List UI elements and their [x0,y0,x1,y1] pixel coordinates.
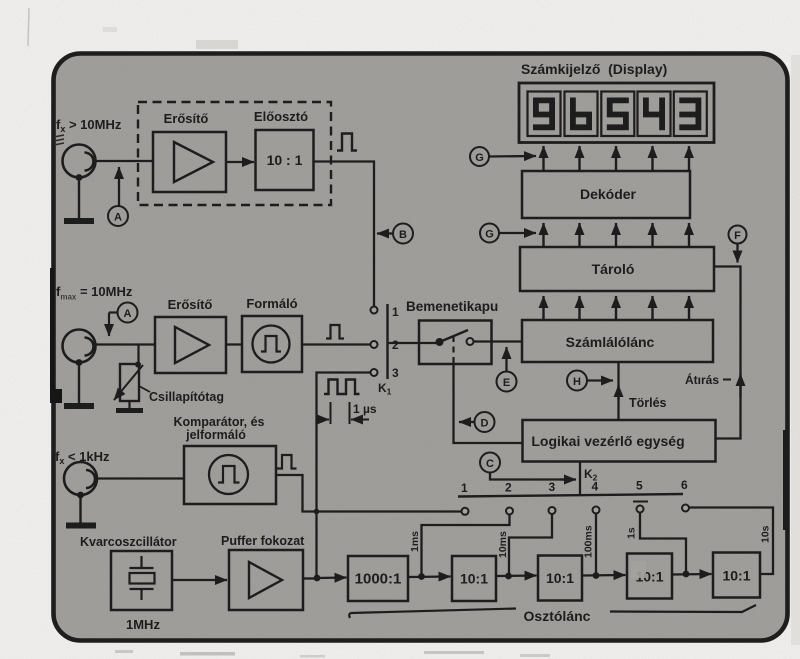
divider block 10:1 (d) [713,553,760,598]
svg-text:3: 3 [392,366,399,380]
svg-text:1ms: 1ms [409,531,421,552]
svg-text:2: 2 [505,481,512,495]
digit cell 2 (6 as b) [565,92,598,137]
svg-text:10 : 1: 10 : 1 [267,152,303,168]
wire last divider to contact 6 [690,508,774,575]
storage block Tároló [520,247,714,291]
wire contact3 to 10ms node [509,514,552,576]
digit cell 3 (5) [601,92,634,137]
svg-text:Számkijelző (Display): Számkijelző (Display) [521,61,667,77]
label Puffer fokozat [221,534,305,548]
svg-text:1 µs: 1 µs [353,402,377,416]
ground (J1) [64,178,94,221]
calibration double pulse symbol [324,380,360,395]
amplifier block (middle) [155,317,226,373]
arrows store to decoder [544,223,690,247]
svg-text:Csillapítótag: Csillapítótag [149,390,224,404]
pulse symbol (comparator output) [277,455,297,469]
arrows decoder to display [544,146,690,171]
wire prescaler to K1 pos1 [314,162,375,307]
K2 contact 2 [506,508,513,515]
wire contact5 to 1s node [640,513,686,575]
divider block 1000:1 [348,556,408,601]
svg-text:Számlálólánc: Számlálólánc [566,334,655,350]
label Csillapítótag [139,386,224,404]
svg-text:Kvarcoszcillátor: Kvarcoszcillátor [80,535,177,549]
svg-text:Osztólánc: Osztólánc [524,608,591,624]
label Számkijelző (Display) [521,61,667,77]
gate control wire down to logic unit [454,364,523,443]
label Bemenetikapu [406,299,498,314]
wire K1 to gate [388,342,438,344]
prescaler block 10:1 [256,130,314,190]
node after 1000:1 [408,573,451,580]
svg-text:10:1: 10:1 [460,571,488,587]
label Osztólánc [524,608,591,624]
ink blob on left border [50,268,62,403]
svg-text:A: A [114,212,122,224]
input gate block with switch [419,321,492,365]
arrows counter to store [544,296,690,320]
svg-text:Átırás: Átırás [685,372,719,387]
input connector J2 [63,330,96,366]
K2 contact 6 [682,505,689,512]
svg-text:jelformáló: jelformáló [185,428,246,442]
attenuator branch wire [135,345,141,368]
svg-text:1MHz: 1MHz [126,617,160,632]
svg-text:Komparátor, és: Komparátor, és [173,415,264,429]
svg-text:10:1: 10:1 [546,570,574,586]
label fx<1kHz [55,449,110,466]
node after 10:1 (a) [496,573,537,580]
node A (second) [109,303,138,337]
label Komparátor és jelformáló [173,415,264,442]
label Átírás [685,372,731,387]
svg-text:1000:1: 1000:1 [355,571,402,588]
svg-text:C: C [486,458,494,470]
node H arrow [567,371,613,391]
divider block 10:1 (a) [452,556,496,601]
svg-text:1: 1 [461,481,468,495]
svg-text:H: H [573,376,581,388]
svg-text:Erősítő: Erősítő [164,111,209,126]
svg-text:4: 4 [592,480,599,494]
node G arrow (lower) [480,224,536,243]
node between 10:1 (c) and (d) [672,571,712,578]
K2 bus bar [458,494,683,497]
dashed prescaler enclosure [138,102,331,205]
digit cell 4 (4) [638,92,671,137]
svg-text:Törlés: Törlés [629,396,667,410]
node B [377,224,413,244]
1µs dimension [317,402,377,424]
digit cell 1 (9) [528,92,561,137]
wire contact2 to 1ms node [422,515,510,577]
display bezel [519,83,714,143]
svg-text:1s: 1s [626,527,638,539]
label fmax=10MHz [56,284,133,302]
ground (attenuator) [116,401,143,411]
svg-text:Puffer fokozat: Puffer fokozat [221,534,305,548]
crystal oscillator block [111,551,172,610]
svg-text:E: E [503,377,510,389]
wire amp2 to shaper [226,343,242,345]
arrow into 1000:1 [317,576,347,579]
node F [729,226,747,263]
attenuator (Csillapítótag) [114,364,143,401]
wire gate to counter chain [474,340,523,342]
input connector J1 [63,145,96,181]
svg-text:Tároló: Tároló [592,261,635,277]
digit cell 5 (3) [674,92,707,137]
svg-text:10ms: 10ms [497,531,509,558]
node D arrow [459,412,495,432]
wire J1 to amplifier [96,160,154,162]
svg-text:B: B [399,229,407,241]
svg-text:fx > 10MHz: fx > 10MHz [56,117,122,134]
wire contact4 to 100ms node [595,514,597,576]
svg-text:5: 5 [636,479,643,493]
K2 position numbers [461,478,688,502]
wire shaper to K1 pos2 [302,343,371,345]
node G arrow (upper) [470,147,536,166]
node E arrow [497,347,517,392]
svg-text:Bemenetikapu: Bemenetikapu [406,299,498,314]
label Erősítő (top) [164,111,209,126]
ground (J2) [64,363,94,406]
decoder block [522,171,690,218]
wire crystal to buffer [172,579,227,581]
pulse symbol (shaper output) [326,325,344,339]
ink tick on right border [783,430,789,530]
svg-text:Formáló: Formáló [246,296,297,311]
comparator block [184,446,276,504]
svg-text:6: 6 [681,478,688,492]
svg-text:Erősítő: Erősítő [168,297,213,312]
label Kvarcoszcillátor [80,535,177,549]
svg-text:F: F [734,230,741,242]
svg-text:G: G [475,152,484,164]
node A arrow (top) [108,167,128,226]
switch K2 stem [580,462,598,496]
wire 1MHz riser (K1 pos3 feed) [317,373,371,578]
K2 contact 4 [593,507,600,514]
svg-text:10s: 10s [760,525,772,543]
label Formáló [246,296,297,311]
svg-text:3: 3 [549,480,556,494]
svg-text:Logikai vezérlő egység: Logikai vezérlő egység [531,433,684,449]
label 10ms [497,531,509,558]
svg-text:Előosztó: Előosztó [254,109,308,124]
label 1MHz [126,617,160,632]
wire comparator to contact 1 [276,475,461,514]
svg-text:D: D [481,418,489,430]
brace left [349,609,516,619]
node after 10:1 (b) [582,572,626,579]
label Erősítő (middle) [168,297,213,312]
label fx>10MHz [54,117,122,145]
brace right [610,605,756,612]
svg-text:100ms: 100ms [583,525,595,558]
svg-text:Dekóder: Dekóder [580,186,637,202]
label 1s [626,527,638,539]
input connector J3 [64,462,97,498]
switch K1 contacts [371,304,388,379]
divider block 10:1 (c) smudged [627,554,672,599]
svg-text:A: A [124,308,132,320]
K2 contact 3 [549,507,556,514]
K2 contact 5 [637,506,644,513]
logic control unit block [523,420,716,462]
label 10s [760,525,772,543]
K2 contact 1 [462,508,469,515]
transfer wire Tároló to logic unit [714,267,741,439]
shaper block (Formáló) [242,316,302,372]
wire amp to prescaler [226,161,254,163]
label Előosztó [254,109,308,124]
buffer block [229,550,303,610]
svg-text:1: 1 [392,305,399,319]
svg-text:G: G [485,229,494,241]
svg-text:10:1: 10:1 [722,568,750,584]
wire J2 to amplifier 2 [96,343,156,345]
K1 position numbers [378,305,399,397]
page specks below panel [115,650,550,658]
ground (J3) [66,495,96,526]
counter chain block [522,320,713,362]
pulse symbol (prescaler output) [337,134,357,151]
label 1ms [409,531,421,552]
clear wire (Törlés) [619,362,667,420]
wire J3 to comparator [97,477,184,479]
label 100ms [583,525,595,558]
node C wire to K2 [480,453,576,480]
wire buffer to divider junction [303,575,320,582]
divider block 10:1 (b) [538,556,582,601]
svg-text:2: 2 [392,338,399,352]
amplifier block (top) [153,132,226,192]
